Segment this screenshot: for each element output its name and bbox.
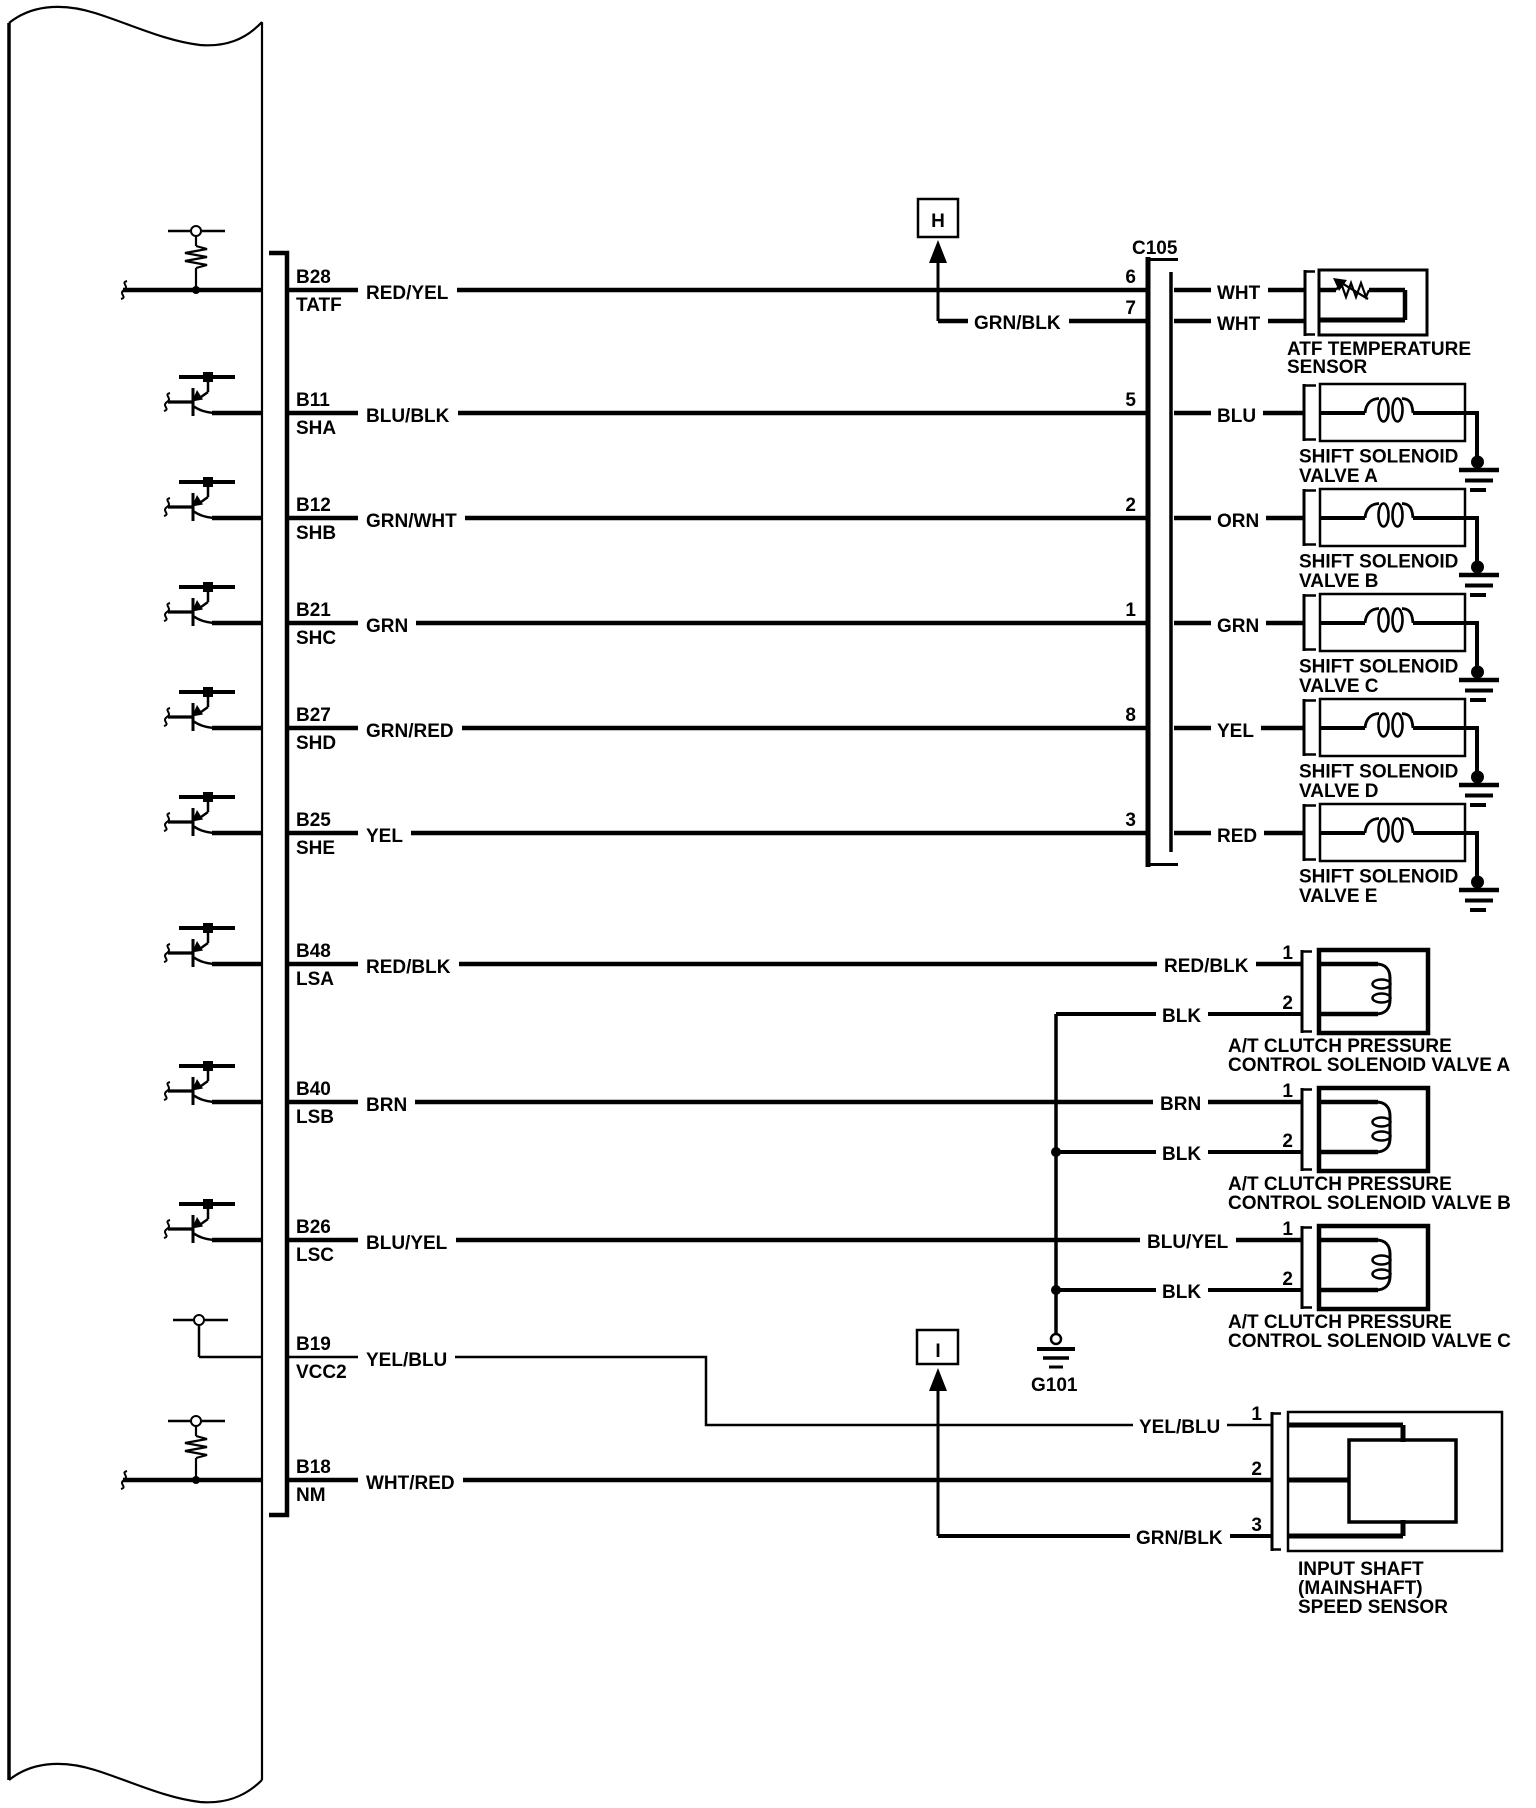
ground for shift solenoid valve A xyxy=(1459,413,1499,490)
pin B11/SHA stub wire xyxy=(289,411,358,416)
svg-text:SENSOR: SENSOR xyxy=(1287,357,1368,378)
wire BLU/YEL toward valve xyxy=(456,1238,1140,1243)
svg-text:B40: B40 xyxy=(296,1079,331,1100)
svg-text:BLU/BLK: BLU/BLK xyxy=(366,406,450,427)
shift solenoid valve A xyxy=(1304,384,1479,441)
wire RED from C105 xyxy=(1174,831,1211,836)
wire BLU/YEL into valve pin 1 xyxy=(1236,1238,1302,1243)
pin B26/LSC stub wire xyxy=(289,1238,358,1243)
label A/T clutch pressure control solenoid valve C xyxy=(1228,1312,1511,1352)
ground G101 xyxy=(1037,1334,1075,1367)
transistor driver B11 xyxy=(164,372,262,416)
svg-text:SHE: SHE xyxy=(296,838,335,859)
svg-text:BLU: BLU xyxy=(1217,406,1256,427)
ground for shift solenoid valve D xyxy=(1459,728,1499,805)
wire BLK into valve C xyxy=(1208,1288,1302,1292)
label A/T clutch pressure control solenoid valve B xyxy=(1228,1174,1511,1214)
pin B28/TATF stub wire xyxy=(289,288,358,293)
svg-text:B19: B19 xyxy=(296,1334,331,1355)
svg-text:1: 1 xyxy=(1282,1219,1293,1240)
svg-text:SHIFT SOLENOID: SHIFT SOLENOID xyxy=(1299,867,1458,888)
svg-text:H: H xyxy=(931,211,945,232)
svg-text:LSC: LSC xyxy=(296,1245,334,1266)
pin B18/NM stub wire xyxy=(289,1478,358,1483)
label shift solenoid valve E xyxy=(1299,867,1458,908)
wire RED/BLK into valve pin 1 xyxy=(1256,962,1302,967)
wire YEL to C105 xyxy=(411,831,1148,836)
pin B21/SHC stub wire xyxy=(289,621,358,626)
ATF temperature sensor xyxy=(1305,270,1427,336)
wire BLK valve C pin 2 xyxy=(1056,1288,1156,1292)
pin label B21/SHC xyxy=(296,600,336,649)
svg-text:BLU/YEL: BLU/YEL xyxy=(366,1233,448,1254)
svg-text:CONTROL SOLENOID VALVE A: CONTROL SOLENOID VALVE A xyxy=(1228,1055,1510,1076)
transistor driver B25 xyxy=(164,792,262,836)
svg-text:VCC2: VCC2 xyxy=(296,1362,347,1383)
wire RED/BLK toward valve xyxy=(459,962,1157,967)
svg-text:2: 2 xyxy=(1251,1459,1262,1480)
wire BLU to component xyxy=(1263,411,1304,416)
label shift solenoid valve A xyxy=(1299,447,1458,488)
svg-text:SHIFT SOLENOID: SHIFT SOLENOID xyxy=(1299,762,1458,783)
svg-text:3: 3 xyxy=(1125,810,1136,831)
ground for shift solenoid valve C xyxy=(1459,623,1499,700)
pin label B27/SHD xyxy=(296,705,336,754)
svg-text:YEL/BLU: YEL/BLU xyxy=(1139,1417,1220,1438)
svg-text:B27: B27 xyxy=(296,705,331,726)
svg-text:1: 1 xyxy=(1282,943,1293,964)
svg-text:SHA: SHA xyxy=(296,418,336,439)
svg-text:RED/YEL: RED/YEL xyxy=(366,283,449,304)
svg-text:1: 1 xyxy=(1282,1081,1293,1102)
svg-text:RED/BLK: RED/BLK xyxy=(1164,956,1249,977)
A/T clutch pressure control solenoid valve A xyxy=(1302,950,1428,1033)
transistor driver B26 xyxy=(164,1199,262,1243)
wire GRN to C105 xyxy=(416,621,1148,626)
pin label B48/LSA xyxy=(296,941,334,990)
svg-text:BRN: BRN xyxy=(1160,1094,1201,1115)
svg-text:BLK: BLK xyxy=(1162,1006,1201,1027)
wire WHT to component xyxy=(1268,319,1304,324)
svg-text:2: 2 xyxy=(1282,1131,1293,1152)
reference box I xyxy=(917,1330,958,1364)
wire GRN/WHT to C105 xyxy=(465,516,1148,521)
wire RED/YEL to C105 xyxy=(457,288,1148,293)
wire WHT/RED to sensor pin 2 xyxy=(463,1478,1272,1483)
svg-text:YEL/BLU: YEL/BLU xyxy=(366,1350,447,1371)
wire BLK into valve A xyxy=(1208,1012,1302,1016)
arrow up to H xyxy=(929,240,947,321)
svg-text:B48: B48 xyxy=(296,941,331,962)
shift solenoid valve E xyxy=(1304,804,1479,861)
shift solenoid valve D xyxy=(1304,699,1479,756)
label shift solenoid valve B xyxy=(1299,552,1458,593)
wire BLK valve A pin 2 xyxy=(1056,1012,1156,1016)
svg-text:CONTROL SOLENOID VALVE B: CONTROL SOLENOID VALVE B xyxy=(1228,1193,1511,1214)
label shift solenoid valve C xyxy=(1299,657,1458,698)
pin label B12/SHB xyxy=(296,495,336,544)
svg-text:B26: B26 xyxy=(296,1217,331,1238)
svg-text:GRN/BLK: GRN/BLK xyxy=(974,313,1061,334)
pin label B40/LSB xyxy=(296,1079,334,1128)
svg-text:BLK: BLK xyxy=(1162,1282,1201,1303)
svg-text:NM: NM xyxy=(296,1485,326,1506)
wire BLU/BLK to C105 xyxy=(458,411,1148,416)
svg-text:B11: B11 xyxy=(296,390,330,411)
transistor driver B21 xyxy=(164,582,262,626)
svg-text:GRN/RED: GRN/RED xyxy=(366,721,454,742)
wire WHT from C105 xyxy=(1174,288,1211,293)
junction dot xyxy=(1051,1147,1061,1157)
ECM/PCM block torn-edge outline xyxy=(9,7,262,1802)
svg-text:GRN/BLK: GRN/BLK xyxy=(1136,1528,1223,1549)
svg-text:VALVE E: VALVE E xyxy=(1299,886,1377,907)
wire ORN from C105 xyxy=(1174,516,1211,521)
wire GRN from C105 xyxy=(1174,621,1211,626)
connector C105 xyxy=(1148,257,1178,867)
wire YEL/BLU run with jog down xyxy=(455,1357,1133,1425)
pin label B11/SHA xyxy=(296,390,336,439)
wire GRN/BLK into sensor pin 3 xyxy=(1230,1534,1272,1538)
ground for shift solenoid valve B xyxy=(1459,518,1499,595)
transistor driver B12 xyxy=(164,477,262,521)
pull-up resistor at B18 xyxy=(121,1416,262,1489)
ground bus wire xyxy=(1054,1014,1058,1334)
arrow up to I xyxy=(929,1368,947,1536)
connector pin-group bracket xyxy=(269,253,287,1515)
transistor driver B27 xyxy=(164,687,262,731)
pin label B26/LSC xyxy=(296,1217,334,1266)
wire YEL from C105 xyxy=(1174,726,1211,731)
pin B19/VCC2 stub wire xyxy=(289,1356,358,1359)
svg-text:GRN/WHT: GRN/WHT xyxy=(366,511,457,532)
input shaft (mainshaft) speed sensor xyxy=(1272,1412,1502,1551)
svg-text:SHD: SHD xyxy=(296,733,336,754)
svg-text:2: 2 xyxy=(1125,495,1136,516)
wire ORN to component xyxy=(1266,516,1304,521)
wire GRN/BLK to C105 pin 7 xyxy=(1069,319,1148,324)
svg-text:B28: B28 xyxy=(296,267,331,288)
wire GRN/RED to C105 xyxy=(462,726,1148,731)
svg-text:7: 7 xyxy=(1125,298,1136,319)
svg-text:C105: C105 xyxy=(1132,238,1178,259)
transistor driver B40 xyxy=(164,1061,262,1105)
svg-text:SHC: SHC xyxy=(296,628,336,649)
pin label B19/VCC2 xyxy=(296,1334,347,1383)
svg-text:GRN: GRN xyxy=(366,616,408,637)
transistor driver B48 xyxy=(164,923,262,967)
svg-text:INPUT SHAFT: INPUT SHAFT xyxy=(1298,1559,1424,1580)
svg-text:WHT: WHT xyxy=(1217,314,1261,335)
svg-text:SHIFT SOLENOID: SHIFT SOLENOID xyxy=(1299,447,1458,468)
svg-text:VALVE D: VALVE D xyxy=(1299,781,1379,802)
wire BLU from C105 xyxy=(1174,411,1211,416)
svg-text:2: 2 xyxy=(1282,993,1293,1014)
svg-text:VALVE B: VALVE B xyxy=(1299,571,1379,592)
svg-text:WHT: WHT xyxy=(1217,283,1261,304)
wire BLK into valve B xyxy=(1208,1150,1302,1154)
pin B27/SHD stub wire xyxy=(289,726,358,731)
svg-text:BLU/YEL: BLU/YEL xyxy=(1147,1232,1229,1253)
svg-text:LSA: LSA xyxy=(296,969,334,990)
pin B48/LSA stub wire xyxy=(289,962,358,967)
pin B12/SHB stub wire xyxy=(289,516,358,521)
svg-text:6: 6 xyxy=(1125,267,1136,288)
svg-text:I: I xyxy=(935,1341,940,1362)
label input shaft speed sensor xyxy=(1298,1559,1448,1618)
svg-text:B21: B21 xyxy=(296,600,331,621)
svg-text:BRN: BRN xyxy=(366,1095,407,1116)
svg-text:ORN: ORN xyxy=(1217,511,1259,532)
svg-text:YEL: YEL xyxy=(366,826,403,847)
pin B40/LSB stub wire xyxy=(289,1100,358,1105)
svg-text:1: 1 xyxy=(1125,600,1136,621)
svg-text:B25: B25 xyxy=(296,810,331,831)
wire BRN into valve pin 1 xyxy=(1208,1100,1302,1105)
wire BLK valve B pin 2 xyxy=(1056,1150,1156,1154)
ground for shift solenoid valve E xyxy=(1459,833,1499,910)
label shift solenoid valve D xyxy=(1299,762,1458,803)
pin B25/SHE stub wire xyxy=(289,831,358,836)
junction dot xyxy=(1051,1285,1061,1295)
wire GRN/BLK stub from H arrow xyxy=(938,319,968,324)
wire BRN toward valve xyxy=(415,1100,1153,1105)
shift solenoid valve C xyxy=(1304,594,1479,651)
svg-text:8: 8 xyxy=(1125,705,1136,726)
thermistor element xyxy=(1336,283,1369,297)
label A/T clutch pressure control solenoid valve A xyxy=(1228,1036,1510,1076)
svg-text:A/T CLUTCH PRESSURE: A/T CLUTCH PRESSURE xyxy=(1228,1036,1452,1057)
svg-text:BLK: BLK xyxy=(1162,1144,1201,1165)
svg-text:SHB: SHB xyxy=(296,523,336,544)
wire YEL to component xyxy=(1261,726,1304,731)
svg-text:A/T CLUTCH PRESSURE: A/T CLUTCH PRESSURE xyxy=(1228,1312,1452,1333)
svg-text:3: 3 xyxy=(1251,1515,1262,1536)
wire GRN to component xyxy=(1266,621,1304,626)
label ATF temperature sensor xyxy=(1287,339,1471,378)
svg-text:LSB: LSB xyxy=(296,1107,334,1128)
svg-text:CONTROL SOLENOID VALVE C: CONTROL SOLENOID VALVE C xyxy=(1228,1331,1511,1352)
svg-text:TATF: TATF xyxy=(296,295,342,316)
pin label B18/NM xyxy=(296,1457,331,1506)
svg-text:1: 1 xyxy=(1251,1404,1262,1425)
svg-text:G101: G101 xyxy=(1031,1375,1078,1396)
svg-text:SHIFT SOLENOID: SHIFT SOLENOID xyxy=(1299,657,1458,678)
svg-text:YEL: YEL xyxy=(1217,721,1254,742)
svg-text:RED: RED xyxy=(1217,826,1257,847)
shift solenoid valve B xyxy=(1304,489,1479,546)
svg-text:RED/BLK: RED/BLK xyxy=(366,957,451,978)
VCC2 supply symbol xyxy=(173,1315,262,1357)
svg-text:GRN: GRN xyxy=(1217,616,1259,637)
svg-text:WHT/RED: WHT/RED xyxy=(366,1473,455,1494)
svg-text:A/T CLUTCH PRESSURE: A/T CLUTCH PRESSURE xyxy=(1228,1174,1452,1195)
svg-text:SPEED SENSOR: SPEED SENSOR xyxy=(1298,1597,1448,1618)
wire RED to component xyxy=(1264,831,1304,836)
wire WHT from C105 xyxy=(1174,319,1211,324)
wire GRN/BLK stub from I arrow xyxy=(938,1534,1130,1538)
svg-text:B12: B12 xyxy=(296,495,331,516)
svg-text:2: 2 xyxy=(1282,1269,1293,1290)
A/T clutch pressure control solenoid valve C xyxy=(1302,1226,1428,1309)
wire WHT to component xyxy=(1268,288,1304,293)
wire YEL/BLU into sensor pin 1 xyxy=(1227,1424,1272,1427)
A/T clutch pressure control solenoid valve B xyxy=(1302,1088,1428,1171)
pin label B28/TATF xyxy=(296,267,342,316)
pull-up resistor at B28 xyxy=(121,226,262,299)
svg-text:5: 5 xyxy=(1125,390,1136,411)
svg-text:VALVE C: VALVE C xyxy=(1299,676,1379,697)
pin label B25/SHE xyxy=(296,810,335,859)
svg-text:B18: B18 xyxy=(296,1457,331,1478)
svg-text:(MAINSHAFT): (MAINSHAFT) xyxy=(1298,1578,1423,1599)
svg-text:VALVE A: VALVE A xyxy=(1299,466,1378,487)
reference box H xyxy=(918,199,958,237)
svg-text:SHIFT SOLENOID: SHIFT SOLENOID xyxy=(1299,552,1458,573)
